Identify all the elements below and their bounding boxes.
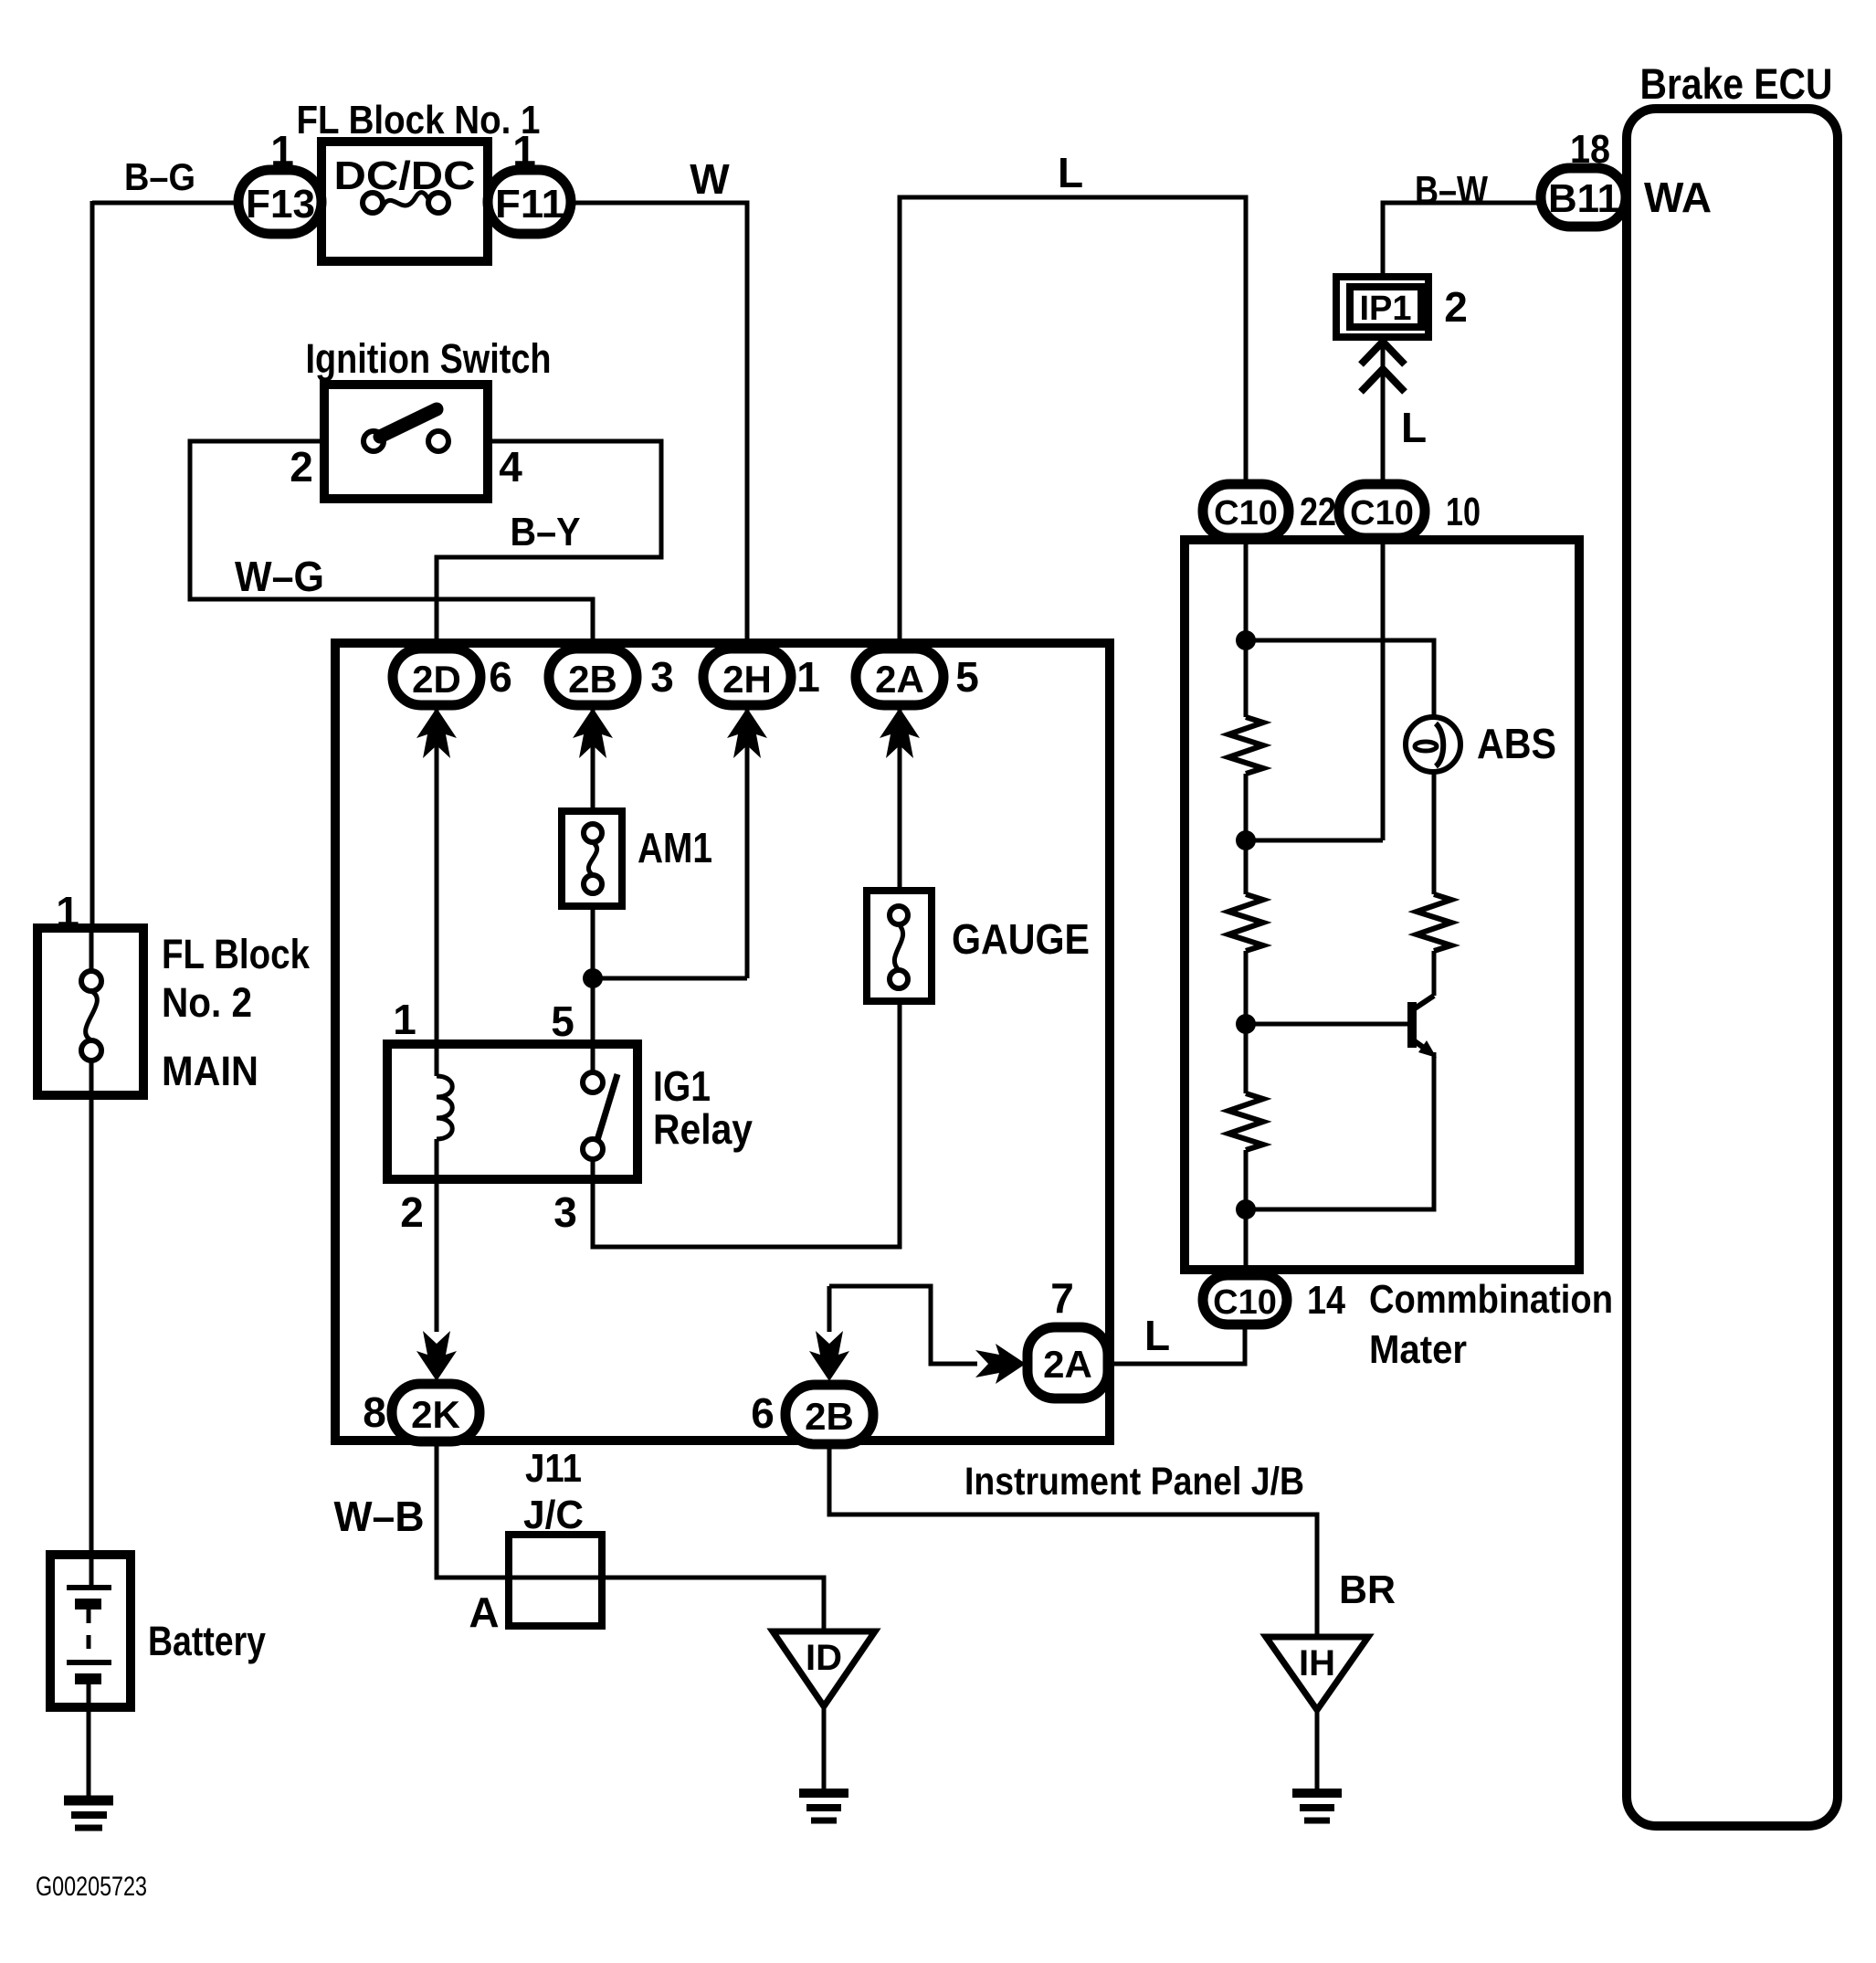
- wire bulb bottom to resistor4: [1432, 771, 1437, 894]
- connector IP1 box: [1336, 277, 1428, 337]
- svg-text:BR: BR: [1339, 1567, 1396, 1612]
- arrow up into 2B: [573, 708, 613, 758]
- Battery box: [50, 1555, 131, 1707]
- svg-text:8: 8: [363, 1388, 386, 1436]
- connector oval C10 pin22: [1203, 484, 1289, 538]
- svg-text:Ignition Switch: Ignition Switch: [306, 335, 552, 382]
- svg-text:7: 7: [1050, 1274, 1074, 1322]
- svg-text:2D: 2D: [412, 658, 461, 701]
- svg-text:J11: J11: [525, 1446, 582, 1491]
- wire FL Block No.2 internal top: [90, 928, 94, 972]
- arrow down into 2K: [416, 1331, 457, 1381]
- wire ignition switch pin 4 B-Y to 2D: [437, 441, 661, 650]
- Ignition Switch box: [324, 385, 488, 499]
- wire 2B pin6 down to IH (BR): [829, 1441, 1317, 1637]
- svg-text:W–G: W–G: [235, 553, 324, 600]
- SECTION: parts: [64, 168, 1626, 1828]
- svg-text:ABS: ABS: [1477, 720, 1556, 767]
- node meter junction 2: [1236, 830, 1256, 850]
- svg-text:L: L: [1058, 149, 1083, 196]
- connector B11: [1541, 168, 1626, 227]
- wire ignition switch pin 2 to 2B (W-G): [190, 441, 593, 650]
- wire IH to ground: [1315, 1710, 1320, 1790]
- wire W from F11 to junction block: [569, 203, 747, 650]
- svg-text:B–G: B–G: [124, 155, 195, 198]
- ground IH: [1292, 1793, 1342, 1821]
- wire relay coil bottom to arrow and 2K: [435, 1139, 439, 1332]
- wire ID to ground: [822, 1706, 827, 1790]
- svg-text:FL Block: FL Block: [162, 931, 311, 977]
- DC/DC block box (FL Block No. 1): [321, 142, 488, 261]
- svg-text:C10: C10: [1350, 494, 1414, 533]
- ground battery: [64, 1800, 113, 1828]
- svg-text:B–Y: B–Y: [511, 510, 581, 554]
- resistor R4 meter: [1417, 894, 1451, 951]
- SECTION: wires: [89, 197, 1543, 1797]
- wire 2A pin7 S-route from 2B: [829, 1286, 977, 1364]
- wire B-W from IP1 to B11: [1383, 203, 1543, 279]
- fusible link in FL Block No.2: [81, 971, 101, 1061]
- wire 2A pin7 to C10 14 (L): [1106, 1326, 1245, 1364]
- svg-text:L: L: [1144, 1312, 1170, 1359]
- svg-text:14: 14: [1307, 1278, 1345, 1323]
- svg-text:GAUGE: GAUGE: [952, 915, 1090, 963]
- arrow up into 2H: [727, 708, 767, 758]
- svg-text:4: 4: [499, 443, 522, 491]
- ignition switch contacts and lever: [364, 409, 448, 451]
- svg-text:1: 1: [270, 127, 294, 174]
- svg-text:IH: IH: [1299, 1643, 1335, 1683]
- svg-text:3: 3: [553, 1188, 577, 1236]
- wire 2D line down to IG1 relay coil: [435, 703, 439, 1076]
- svg-text:1: 1: [796, 653, 820, 701]
- Instrument Panel J/B box: [335, 643, 1110, 1441]
- fuse GAUGE element: [890, 906, 908, 988]
- connector oval 2A pin5: [856, 649, 943, 705]
- IG1 Relay box: [387, 1044, 638, 1179]
- svg-text:WA: WA: [1644, 174, 1712, 221]
- wire C10 10 down to junction2 level: [1381, 536, 1386, 840]
- svg-text:2B: 2B: [568, 658, 617, 701]
- connector F11: [488, 170, 571, 234]
- svg-text:Relay: Relay: [653, 1105, 753, 1153]
- svg-text:5: 5: [955, 653, 979, 701]
- arrow down into 2B pin6: [809, 1331, 849, 1381]
- connector oval 2K: [392, 1384, 480, 1441]
- wire left vertical B-G down to FL Block No.2: [90, 201, 95, 928]
- transistor Q1 meter: [1412, 996, 1437, 1058]
- resistor R3 meter: [1228, 1093, 1263, 1150]
- svg-text:2A: 2A: [1043, 1343, 1092, 1386]
- overlap chevrons under IP1: [1361, 342, 1405, 392]
- ground connector ID triangle: [773, 1631, 875, 1706]
- svg-text:10: 10: [1446, 490, 1481, 534]
- svg-text:Instrument Panel J/B: Instrument Panel J/B: [964, 1460, 1304, 1504]
- ground connector IH triangle: [1266, 1637, 1368, 1710]
- node meter junction 1: [1236, 630, 1256, 650]
- svg-text:Battery: Battery: [148, 1618, 266, 1664]
- svg-text:5: 5: [551, 997, 574, 1045]
- svg-text:W–B: W–B: [334, 1493, 425, 1540]
- svg-text:FL Block No. 1: FL Block No. 1: [297, 98, 541, 142]
- wire 2H line down: [745, 703, 750, 978]
- wire IP1 bottom to C10 10 (L): [1381, 335, 1386, 486]
- fuse AM1 element: [584, 824, 602, 893]
- wire L from 2A top to C10 22: [900, 197, 1246, 650]
- svg-text:IG1: IG1: [653, 1062, 711, 1110]
- connector oval 2A pin7: [1028, 1327, 1108, 1398]
- FL Block No.2 box: [37, 928, 143, 1095]
- wire Battery bottom to ground: [87, 1683, 91, 1797]
- wire C10 14 below meter: [1243, 1323, 1248, 1364]
- resistor R2 meter: [1228, 894, 1263, 951]
- svg-text:C10: C10: [1214, 494, 1278, 533]
- connector oval 2H: [703, 649, 791, 705]
- arrow up into 2D: [416, 708, 457, 758]
- wire 2K down W-B to J/C and ID: [437, 1441, 824, 1631]
- svg-text:B–W: B–W: [1415, 168, 1488, 213]
- svg-text:6: 6: [751, 1389, 775, 1437]
- wire meter left line C10 22 down: [1244, 536, 1249, 1277]
- svg-text:6: 6: [489, 653, 512, 701]
- connector F13: [238, 170, 321, 234]
- resistor R1 meter: [1228, 717, 1263, 774]
- node junction AM1/2H: [583, 968, 603, 988]
- wire meter junction2 horizontal: [1246, 839, 1383, 843]
- svg-text:DC/DC: DC/DC: [334, 153, 476, 198]
- node meter junction 3: [1236, 1014, 1256, 1034]
- connector oval 2B pin3: [549, 649, 637, 705]
- connector oval 2B pin6: [785, 1385, 873, 1444]
- Brake ECU box: [1627, 109, 1838, 1826]
- wire AM1 to junction and relay pin 5: [591, 904, 595, 1076]
- svg-text:W: W: [690, 155, 730, 203]
- svg-text:C10: C10: [1213, 1283, 1277, 1322]
- wire meter junction3 to transistor base: [1246, 1022, 1408, 1027]
- IG1 relay coil: [437, 1076, 452, 1139]
- connector oval 2D: [393, 649, 480, 705]
- connector oval C10 pin10: [1339, 484, 1425, 538]
- svg-text:2: 2: [290, 443, 313, 491]
- junction connector J11 J/C box: [509, 1535, 602, 1626]
- svg-text:G00205723: G00205723: [36, 1872, 147, 1902]
- svg-text:1: 1: [56, 888, 79, 935]
- svg-text:ID: ID: [806, 1638, 842, 1678]
- svg-text:B11: B11: [1548, 176, 1619, 221]
- wire relay pin 3 to GAUGE bottom: [593, 997, 900, 1247]
- svg-text:2: 2: [1444, 283, 1468, 331]
- svg-text:MAIN: MAIN: [162, 1048, 258, 1094]
- svg-text:22: 22: [1300, 490, 1336, 534]
- wire 2A top arrow to GAUGE top: [898, 703, 902, 894]
- wire 2B line down to AM1 fuse: [591, 703, 595, 815]
- svg-text:AM1: AM1: [638, 824, 712, 871]
- wire junction to 2H line: [593, 976, 747, 981]
- node meter junction 4: [1236, 1199, 1256, 1219]
- battery cell plates: [67, 1588, 111, 1683]
- connector oval C10 pin14: [1203, 1275, 1287, 1324]
- svg-text:18: 18: [1570, 127, 1610, 172]
- svg-text:3: 3: [650, 653, 674, 701]
- Combination Meter box: [1185, 540, 1579, 1270]
- svg-text:F13: F13: [246, 182, 315, 227]
- ground ID: [799, 1793, 848, 1821]
- wire B-G horizontal battery feed: [92, 201, 240, 206]
- svg-text:J/C: J/C: [523, 1493, 584, 1537]
- arrow up into 2A: [880, 708, 920, 758]
- svg-text:1: 1: [512, 127, 536, 174]
- arrow right into 2A pin7: [975, 1344, 1026, 1384]
- svg-text:2K: 2K: [411, 1393, 460, 1436]
- lamp ABS bulb: [1406, 717, 1460, 772]
- wire resistor4 to transistor collector: [1432, 951, 1437, 996]
- wire FL Block No.2 bottom to Battery: [90, 1060, 94, 1589]
- svg-text:No. 2: No. 2: [162, 979, 252, 1026]
- wire meter junction1 to ABS bulb: [1246, 640, 1434, 718]
- fusible link symbol in DC/DC: [363, 193, 448, 213]
- svg-text:Commbination: Commbination: [1369, 1277, 1613, 1322]
- svg-text:2B: 2B: [805, 1395, 854, 1438]
- svg-text:A: A: [469, 1588, 499, 1636]
- svg-text:F11: F11: [495, 182, 564, 227]
- svg-text:Mater: Mater: [1369, 1327, 1467, 1372]
- fuse AM1 box: [562, 811, 622, 906]
- svg-text:IP1: IP1: [1359, 290, 1411, 328]
- svg-text:Brake ECU: Brake ECU: [1640, 59, 1833, 108]
- IG1 relay switch: [583, 1072, 617, 1159]
- fuse GAUGE box: [867, 891, 932, 1001]
- svg-text:2H: 2H: [722, 658, 772, 701]
- svg-text:1: 1: [393, 996, 416, 1043]
- svg-text:2A: 2A: [875, 658, 924, 701]
- svg-text:2: 2: [400, 1188, 424, 1236]
- wire transistor emitter down to junction4: [1246, 1052, 1434, 1209]
- svg-text:L: L: [1401, 404, 1427, 451]
